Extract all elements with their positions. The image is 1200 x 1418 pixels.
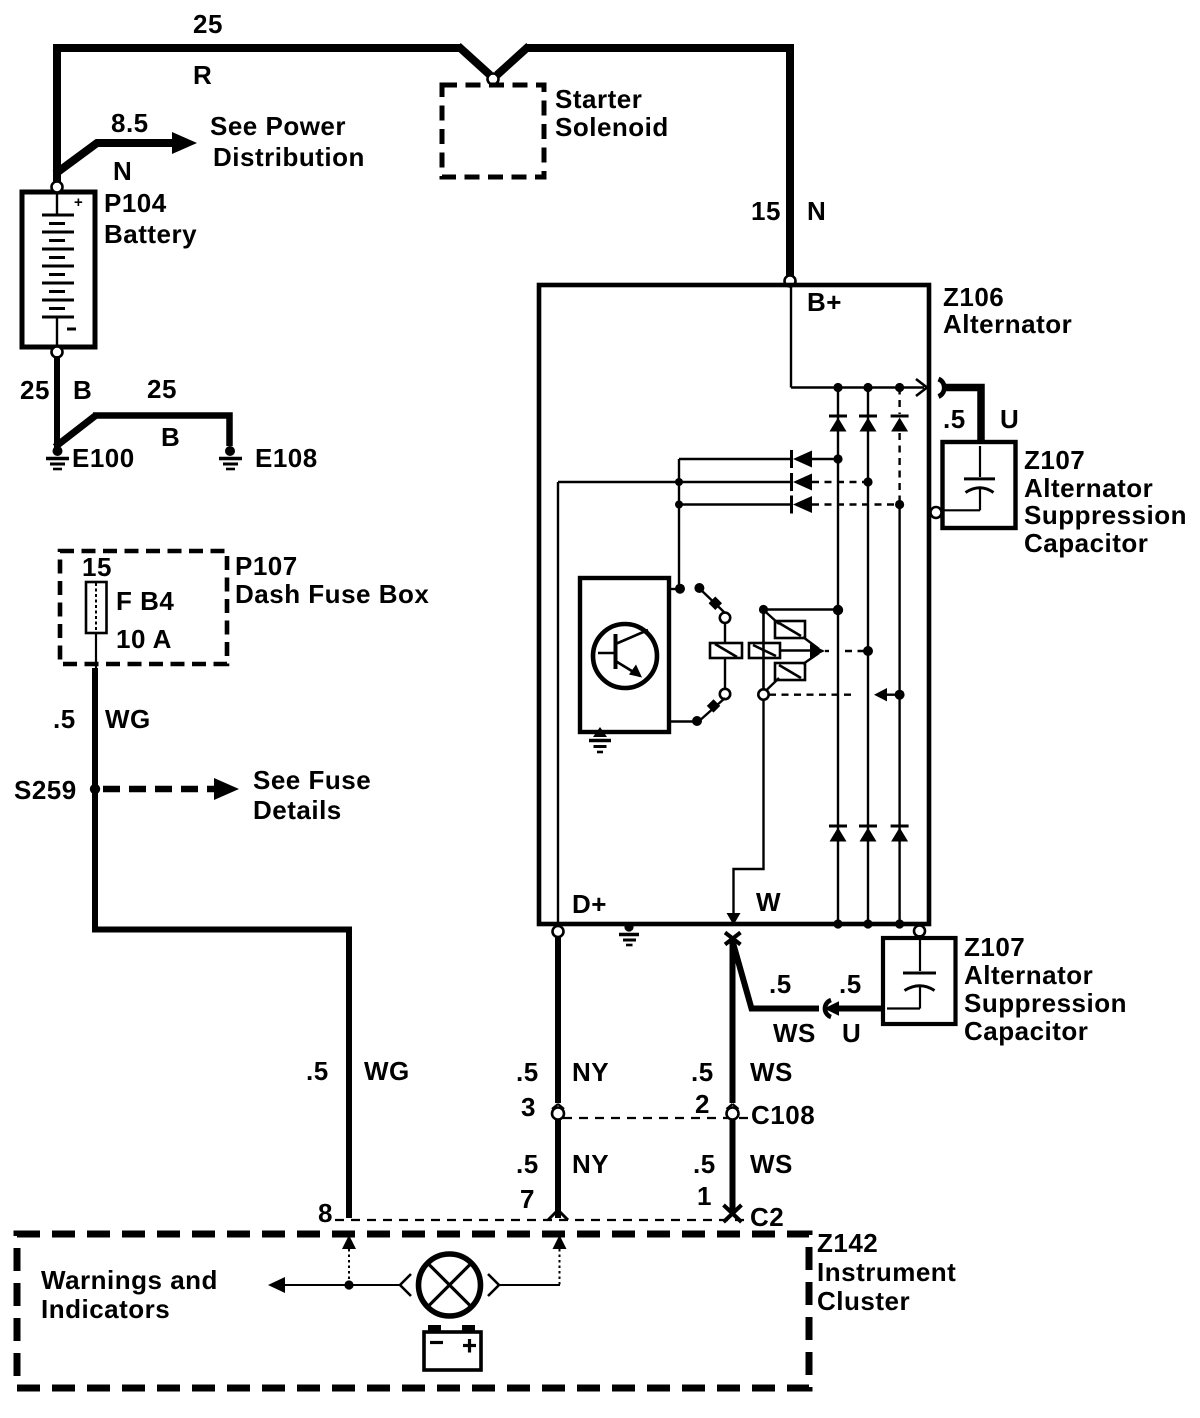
svg-text:15: 15: [82, 552, 112, 582]
transistor Q1: [593, 624, 657, 688]
node stator bottom slip: [758, 689, 768, 699]
svg-text:.5: .5: [943, 404, 966, 434]
ground alternator case: [619, 922, 639, 945]
svg-text:.5: .5: [691, 1057, 714, 1087]
svg-text:Capacitor: Capacitor: [1024, 528, 1148, 558]
ground regulator: [589, 727, 611, 752]
connector pin 3: [552, 1104, 564, 1120]
node stator bottom phase: [895, 690, 905, 700]
svg-text:WS: WS: [750, 1149, 793, 1179]
node bus junction 3: [895, 383, 904, 392]
svg-text:Cluster: Cluster: [817, 1286, 910, 1316]
arrow cluster pin8 up: [342, 1235, 356, 1285]
terminal W bowtie: [725, 933, 741, 945]
svg-text:R: R: [193, 60, 212, 90]
node bus junction 1: [833, 383, 842, 392]
wire stator mid link dashed: [845, 650, 864, 652]
svg-text:3: 3: [521, 1092, 536, 1122]
svg-text:See Power: See Power: [210, 111, 346, 141]
wire phase line 1: [837, 388, 839, 925]
arrow W down: [727, 913, 741, 925]
wire 8.5 N see power distribution: [55, 132, 197, 174]
wire D+ internal: [557, 482, 559, 922]
capacitor Z107 lower: [883, 935, 956, 1024]
ground E100: [46, 446, 69, 469]
svg-text:B: B: [161, 422, 180, 452]
svg-text:.5: .5: [516, 1057, 539, 1087]
svg-text:Z107: Z107: [964, 932, 1025, 962]
svg-text:8: 8: [318, 1198, 333, 1228]
wire B+ internal bus: [791, 287, 927, 396]
node stator top: [759, 605, 768, 614]
svg-text:WS: WS: [750, 1057, 793, 1087]
regulator contact chain: [669, 583, 730, 726]
svg-text:Suppression: Suppression: [1024, 500, 1187, 530]
diode field row 3: [679, 496, 896, 514]
svg-text:Details: Details: [253, 795, 342, 825]
node B+ terminal: [785, 276, 796, 287]
wire NY lower: [555, 1119, 561, 1218]
svg-text:15: 15: [751, 196, 781, 226]
ground E108: [219, 446, 242, 469]
svg-text:Solenoid: Solenoid: [555, 112, 669, 142]
svg-text:7: 7: [520, 1184, 535, 1214]
fuse F B4: [86, 582, 107, 633]
node row2 junction: [675, 478, 683, 486]
svg-text:E108: E108: [255, 443, 318, 473]
node D+ terminal: [553, 926, 564, 937]
svg-text:Instrument: Instrument: [817, 1257, 956, 1287]
diode bottom 2: [859, 826, 877, 842]
svg-text:25: 25: [147, 374, 177, 404]
wire lamp row: [268, 1277, 400, 1293]
wire 25 B to E108: [55, 416, 230, 448]
node row3 junction: [675, 501, 683, 509]
svg-text:Z107: Z107: [1024, 445, 1085, 475]
node bottom junction 2: [863, 919, 872, 928]
svg-text:.5: .5: [516, 1149, 539, 1179]
svg-text:Alternator: Alternator: [943, 309, 1072, 339]
node row1-phase1: [833, 454, 842, 463]
svg-text:N: N: [807, 196, 826, 226]
svg-text:F B4: F B4: [116, 586, 174, 616]
svg-text:See Fuse: See Fuse: [253, 765, 371, 795]
svg-text:E100: E100: [72, 443, 135, 473]
diode top 2: [859, 416, 877, 432]
svg-text:S259: S259: [14, 775, 77, 805]
resistor regulator: [710, 643, 742, 658]
svg-text:Z142: Z142: [817, 1228, 878, 1258]
svg-text:.5: .5: [693, 1149, 716, 1179]
wire WG from fusebox: [95, 633, 349, 1218]
svg-text:WG: WG: [105, 704, 151, 734]
battery P104: [22, 192, 95, 347]
svg-text:W: W: [756, 887, 781, 917]
svg-text:WS: WS: [773, 1018, 816, 1048]
svg-text:.5: .5: [53, 704, 76, 734]
wire WS U to capacitor: [733, 943, 883, 1017]
terminal pin7 feet: [548, 1210, 568, 1220]
svg-text:Alternator: Alternator: [1024, 473, 1153, 503]
svg-text:Capacitor: Capacitor: [964, 1016, 1088, 1046]
svg-text:U: U: [1000, 404, 1019, 434]
svg-text:N: N: [113, 156, 132, 186]
svg-text:Indicators: Indicators: [41, 1294, 170, 1324]
diode top 1: [829, 416, 847, 432]
diode field row 2: [558, 473, 865, 491]
instrument cluster Z142 box: [17, 1234, 809, 1388]
wire WS down to C108: [730, 941, 736, 1103]
node stator top phase: [833, 605, 843, 615]
svg-text:Battery: Battery: [104, 219, 197, 249]
svg-text:B: B: [73, 375, 92, 405]
svg-text:2: 2: [695, 1089, 710, 1119]
svg-text:C108: C108: [751, 1100, 815, 1130]
wire W internal: [734, 699, 764, 915]
wire see fuse details dashed arrow: [103, 778, 239, 800]
node row3-phase3: [895, 500, 904, 509]
lamp chevron left: [400, 1274, 411, 1296]
svg-text:8.5: 8.5: [111, 108, 149, 138]
svg-text:NY: NY: [572, 1149, 609, 1179]
diode top 3: [891, 416, 909, 432]
wire N to alternator: [786, 47, 794, 276]
svg-text:Dash Fuse Box: Dash Fuse Box: [235, 579, 429, 609]
wire NY D+ down: [555, 937, 561, 1103]
svg-text:C2: C2: [750, 1202, 784, 1232]
node battery negative: [52, 347, 63, 358]
svg-text:1: 1: [697, 1181, 712, 1211]
node W bottom circle: [914, 926, 925, 937]
svg-text:P107: P107: [235, 551, 298, 581]
svg-text:.5: .5: [306, 1056, 329, 1086]
node row2-phase2: [863, 477, 872, 486]
terminal pin1 bowtie: [724, 1205, 742, 1222]
svg-text:Distribution: Distribution: [213, 142, 365, 172]
svg-text:25: 25: [193, 9, 223, 39]
svg-text:+: +: [74, 194, 83, 211]
wire 25 R battery to solenoid top: [57, 46, 790, 277]
wire WS lower: [730, 1119, 736, 1213]
diode field row 1: [679, 450, 838, 468]
node capacitor tap: [931, 507, 942, 518]
wire phase line 3 dashed: [898, 388, 900, 925]
wire stator bottom link dashed: [769, 688, 897, 701]
fuse box P107: [60, 551, 227, 664]
stator windings: [749, 609, 838, 694]
svg-text:.5: .5: [769, 969, 792, 999]
svg-text:Starter: Starter: [555, 84, 642, 114]
wire 25 B battery to E100: [54, 356, 60, 448]
svg-text:B+: B+: [807, 287, 842, 317]
node stator mid phase: [863, 646, 873, 656]
lamp indicator: [419, 1254, 481, 1316]
regulator box: [580, 578, 669, 732]
battery icon cluster: [424, 1325, 481, 1370]
lamp chevron right: [488, 1274, 499, 1296]
wire B+ to capacitor U thick: [939, 379, 982, 443]
node bus junction 2: [863, 383, 872, 392]
svg-text:25: 25: [20, 375, 50, 405]
connector C2 dashed: [335, 1219, 748, 1221]
svg-text:Suppression: Suppression: [964, 988, 1127, 1018]
svg-text:WG: WG: [364, 1056, 410, 1086]
svg-text:Warnings and: Warnings and: [41, 1265, 218, 1295]
svg-text:Alternator: Alternator: [964, 960, 1093, 990]
node bottom junction 3: [895, 919, 904, 928]
svg-text:D+: D+: [572, 889, 607, 919]
connector C108 dashed: [563, 1117, 750, 1119]
node bottom junction 1: [833, 919, 842, 928]
connector pin 2: [727, 1104, 739, 1120]
starter solenoid box: [442, 85, 544, 177]
wire phase line 2: [867, 388, 869, 925]
capacitor Z107 upper: [941, 442, 1016, 528]
svg-text:P104: P104: [104, 188, 167, 218]
splice S259: [90, 784, 100, 794]
svg-text:U: U: [842, 1018, 861, 1048]
arrow cluster pin7 up: [500, 1235, 567, 1285]
wire exciter vertical: [678, 459, 680, 588]
svg-text:NY: NY: [572, 1057, 609, 1087]
alternator Z106 box: [539, 285, 929, 924]
diode bottom 3: [891, 826, 909, 842]
svg-text:.5: .5: [839, 969, 862, 999]
node battery positive: [52, 182, 63, 193]
node solenoid tap: [488, 74, 499, 85]
svg-text:10 A: 10 A: [116, 624, 172, 654]
svg-text:Z106: Z106: [943, 282, 1004, 312]
node lamp row junction: [344, 1280, 353, 1289]
diode bottom 1: [829, 826, 847, 842]
